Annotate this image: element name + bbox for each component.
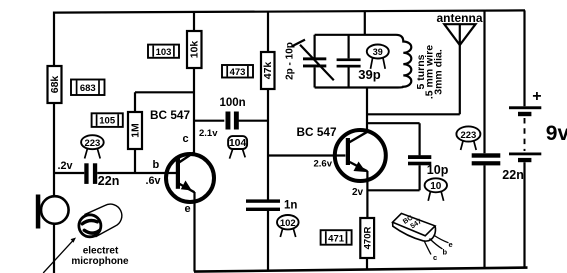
svg-text:10: 10 — [430, 181, 442, 192]
svg-text:e: e — [185, 203, 191, 215]
svg-text:100n: 100n — [220, 97, 246, 109]
svg-text:39p: 39p — [358, 67, 380, 82]
svg-text:223: 223 — [460, 130, 476, 141]
svg-text:39: 39 — [373, 47, 383, 57]
svg-text:68k: 68k — [49, 76, 61, 94]
svg-text:c: c — [433, 253, 437, 262]
svg-text:b: b — [443, 248, 448, 257]
svg-text:105: 105 — [99, 116, 116, 127]
svg-text:2.1v: 2.1v — [199, 128, 218, 139]
svg-text:9v: 9v — [546, 122, 567, 145]
svg-text:22n: 22n — [502, 168, 524, 182]
svg-text:3mm dia.: 3mm dia. — [432, 49, 444, 95]
svg-text:.2v: .2v — [58, 160, 73, 172]
svg-text:10k: 10k — [189, 41, 201, 59]
svg-text:223: 223 — [84, 138, 100, 149]
svg-text:10p: 10p — [427, 163, 449, 177]
svg-text:103: 103 — [156, 47, 172, 58]
svg-text:c: c — [183, 133, 189, 145]
svg-text:antenna: antenna — [437, 11, 483, 25]
svg-text:microphone: microphone — [71, 256, 129, 267]
svg-text:47k: 47k — [262, 62, 274, 80]
svg-text:BC 547: BC 547 — [150, 108, 190, 122]
svg-text:electret: electret — [83, 246, 119, 257]
svg-text:2v: 2v — [352, 187, 364, 198]
svg-text:104: 104 — [229, 137, 247, 149]
svg-text:+: + — [532, 88, 541, 105]
svg-text:2.6v: 2.6v — [314, 159, 333, 170]
svg-text:683: 683 — [80, 83, 96, 94]
svg-text:473: 473 — [230, 67, 246, 78]
svg-text:102: 102 — [280, 218, 296, 229]
svg-text:.6v: .6v — [146, 175, 161, 187]
svg-text:b: b — [153, 159, 160, 171]
svg-text:1n: 1n — [284, 200, 297, 212]
svg-text:e: e — [449, 240, 453, 249]
svg-text:22n: 22n — [98, 174, 120, 188]
svg-text:2p - 10p: 2p - 10p — [285, 42, 296, 80]
svg-text:471: 471 — [328, 234, 345, 245]
svg-text:470R: 470R — [363, 227, 374, 250]
svg-text:BC 547: BC 547 — [297, 125, 337, 139]
svg-text:1M: 1M — [129, 123, 141, 138]
